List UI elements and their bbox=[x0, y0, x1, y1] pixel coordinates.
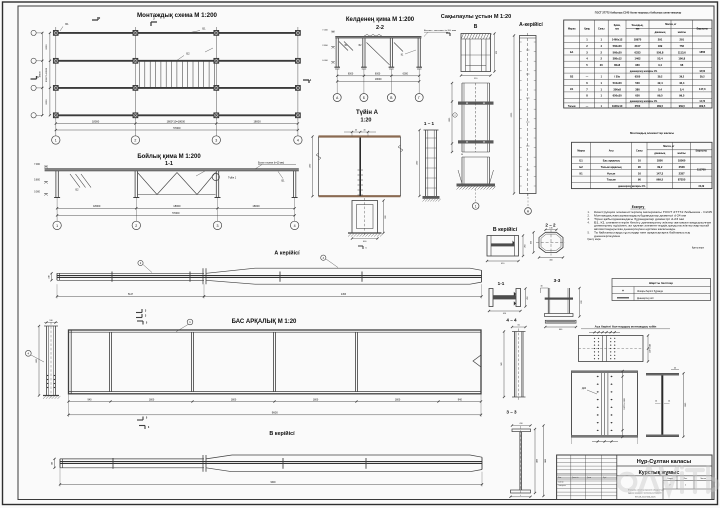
svg-text:Күнí: Күнí bbox=[603, 477, 607, 479]
svg-text:А-керíйісí: А-керíйісí bbox=[519, 21, 543, 28]
svg-text:1462: 1462 bbox=[635, 57, 641, 61]
svg-text:ГОСТ 27772 бойынша С245 болат: ГОСТ 27772 бойынша С245 болат маркасы бо… bbox=[595, 11, 682, 15]
svg-text:4.: 4. bbox=[588, 221, 590, 224]
svg-text:6000: 6000 bbox=[375, 73, 381, 76]
svg-text:КП-08-2107-БҚ-2021: КП-08-2107-БҚ-2021 bbox=[635, 495, 656, 498]
svg-text:5,4: 5,4 bbox=[658, 87, 662, 91]
svg-text:6000: 6000 bbox=[403, 73, 409, 76]
svg-text:147,3: 147,3 bbox=[656, 171, 663, 175]
svg-text:Барлығы: Барлығы bbox=[697, 27, 708, 30]
svg-text:111700: 111700 bbox=[697, 168, 706, 172]
svg-text:В керíйісí: В керíйісí bbox=[269, 430, 295, 437]
svg-text:1800*10=18000: 1800*10=18000 bbox=[167, 119, 186, 123]
svg-text:2: 2 bbox=[134, 139, 136, 143]
svg-text:3107: 3107 bbox=[635, 44, 641, 48]
svg-text:1856: 1856 bbox=[657, 159, 663, 163]
svg-text:0.000: 0.000 bbox=[322, 60, 328, 62]
svg-text:130: 130 bbox=[549, 227, 552, 229]
svg-text:18,56: 18,56 bbox=[699, 71, 705, 73]
svg-text:2: 2 bbox=[135, 224, 137, 228]
svg-text:18000: 18000 bbox=[375, 78, 382, 81]
svg-text:380х12: 380х12 bbox=[613, 57, 622, 61]
svg-text:39,2: 39,2 bbox=[700, 76, 705, 79]
svg-text:39,2: 39,2 bbox=[679, 76, 684, 79]
svg-text:Монтаждық схема М 1:200: Монтаждық схема М 1:200 bbox=[137, 12, 217, 19]
svg-text:Шартты белгілер: Шартты белгілер bbox=[649, 281, 673, 285]
svg-text:6000: 6000 bbox=[46, 44, 48, 50]
svg-text:57000: 57000 bbox=[172, 211, 180, 215]
svg-text:4 – 4: 4 – 4 bbox=[506, 318, 517, 323]
svg-text:1: 1 bbox=[56, 224, 58, 228]
svg-text:5147: 5147 bbox=[128, 294, 134, 296]
svg-text:Б1: Б1 bbox=[570, 50, 574, 54]
svg-text:20: 20 bbox=[600, 63, 603, 67]
svg-text:Тасым арқалық: Тасым арқалық bbox=[601, 165, 623, 169]
svg-text:42,4: 42,4 bbox=[679, 81, 685, 85]
svg-text:960: 960 bbox=[635, 63, 640, 67]
svg-text:Ұстын: Ұстын bbox=[607, 171, 616, 175]
svg-text:90: 90 bbox=[638, 165, 641, 169]
svg-text:300х8: 300х8 bbox=[613, 87, 621, 91]
svg-text:99,5: 99,5 bbox=[657, 94, 663, 98]
svg-text:969,5: 969,5 bbox=[656, 178, 663, 182]
svg-text:100*13=1300: 100*13=1300 bbox=[624, 398, 626, 409]
svg-text:Саны: Саны bbox=[636, 149, 643, 152]
svg-text:18000: 18000 bbox=[253, 119, 261, 123]
svg-text:556,8: 556,8 bbox=[657, 50, 664, 54]
svg-text:1800: 1800 bbox=[395, 398, 401, 401]
svg-text:650х30: 650х30 bbox=[613, 94, 622, 98]
svg-text:240: 240 bbox=[48, 275, 50, 278]
svg-text:Қанту мәре: Қанту мәре bbox=[692, 247, 705, 250]
svg-text:Марка: Марка bbox=[568, 27, 576, 30]
svg-text:10: 10 bbox=[638, 159, 641, 163]
svg-text:дананың: дананың bbox=[654, 152, 665, 155]
svg-text:410: 410 bbox=[519, 423, 522, 425]
svg-text:Масса, кг: Масса, кг bbox=[663, 145, 674, 148]
svg-text:530: 530 bbox=[635, 81, 640, 85]
svg-text:К1: К1 bbox=[570, 87, 574, 91]
svg-text:87255: 87255 bbox=[678, 178, 686, 182]
svg-text:Бас арқалық: Бас арқалық bbox=[603, 159, 621, 163]
svg-text:жалпы: жалпы bbox=[676, 152, 685, 155]
svg-text:7.000: 7.000 bbox=[322, 29, 328, 31]
svg-text:40: 40 bbox=[674, 367, 676, 369]
svg-text:560х20: 560х20 bbox=[613, 50, 622, 54]
svg-text:дәнекерлеу жоғарғы 1%: дәнекерлеу жоғарғы 1% bbox=[630, 101, 657, 103]
svg-text:Марка: Марка bbox=[577, 149, 585, 152]
svg-text:6550: 6550 bbox=[635, 76, 641, 79]
svg-text:18000: 18000 bbox=[92, 119, 100, 123]
svg-text:189: 189 bbox=[658, 44, 663, 48]
svg-text:2-2: 2-2 bbox=[376, 25, 384, 31]
svg-text:Қанту мәре: Қанту мәре bbox=[588, 238, 602, 241]
svg-text:1-1: 1-1 bbox=[498, 281, 505, 286]
svg-text:Келденең қима М 1:200: Келденең қима М 1:200 bbox=[346, 17, 415, 23]
svg-text:Ескерту: Ескерту bbox=[632, 205, 645, 209]
svg-text:90: 90 bbox=[638, 178, 641, 182]
svg-text:Масса, кг: Масса, кг bbox=[665, 23, 676, 26]
svg-text:3528: 3528 bbox=[679, 165, 685, 169]
svg-text:4453: 4453 bbox=[341, 294, 347, 296]
svg-text:68: 68 bbox=[680, 63, 683, 67]
svg-text:30: 30 bbox=[461, 154, 463, 156]
svg-text:Тасым: Тасым bbox=[568, 106, 576, 108]
svg-text:Листов: Листов bbox=[700, 478, 706, 480]
svg-text:969,5: 969,5 bbox=[699, 105, 706, 108]
svg-text:мм: мм bbox=[636, 27, 640, 30]
svg-text:1 – 1: 1 – 1 bbox=[424, 121, 435, 126]
svg-text:Жоғары берíктí бұранда: Жоғары берíктí бұранда bbox=[637, 291, 664, 293]
svg-text:291: 291 bbox=[658, 38, 663, 42]
svg-text:1-1: 1-1 bbox=[165, 161, 173, 167]
svg-text:Дәнекерлеу жігí: Дәнекерлеу жігí bbox=[637, 297, 654, 300]
svg-text:1: 1 bbox=[55, 139, 57, 143]
svg-text:К1: К1 bbox=[580, 171, 584, 175]
svg-text:510х20: 510х20 bbox=[613, 81, 622, 85]
svg-text:57000: 57000 bbox=[173, 126, 181, 130]
svg-text:5,4: 5,4 bbox=[680, 87, 684, 91]
svg-text:Монтаждық элементтер жасағы: Монтаждық элементтер жасағы bbox=[630, 131, 675, 135]
svg-text:53,4: 53,4 bbox=[657, 57, 663, 61]
svg-text:1856: 1856 bbox=[699, 50, 705, 54]
svg-text:1113,6: 1113,6 bbox=[678, 50, 686, 54]
svg-text:жалпы: жалпы bbox=[677, 31, 686, 34]
svg-text:3: 3 bbox=[215, 139, 217, 143]
svg-text:Аты: Аты bbox=[609, 149, 614, 152]
svg-text:6333: 6333 bbox=[635, 50, 641, 54]
svg-text:Түйін 1: Түйін 1 bbox=[228, 177, 237, 180]
svg-text:2357: 2357 bbox=[679, 171, 685, 175]
svg-text:60: 60 bbox=[518, 324, 520, 326]
svg-text:147,3: 147,3 bbox=[699, 87, 706, 91]
svg-text:3-3: 3-3 bbox=[554, 278, 561, 283]
svg-text:6550: 6550 bbox=[635, 105, 641, 108]
svg-text:6000: 6000 bbox=[348, 73, 354, 76]
svg-text:33,29: 33,29 bbox=[698, 186, 704, 188]
svg-text:Б1: Б1 bbox=[65, 22, 69, 26]
svg-text:120*2=240: 120*2=240 bbox=[649, 344, 651, 353]
svg-text:650: 650 bbox=[635, 94, 640, 98]
svg-text:1460х12: 1460х12 bbox=[612, 38, 623, 42]
svg-text:39,2: 39,2 bbox=[657, 165, 663, 169]
svg-text:I 30а: I 30а bbox=[614, 76, 620, 79]
svg-text:Нұр-Сұлтан каласы: Нұр-Сұлтан каласы bbox=[637, 459, 692, 465]
svg-text:Болат төсеме t=10 мм: Болат төсеме t=10 мм bbox=[424, 29, 457, 32]
svg-text:1400: 1400 bbox=[536, 459, 538, 463]
svg-text:560х20: 560х20 bbox=[613, 44, 622, 48]
svg-text:БАС АРҚАЛЫҚ М 1:20: БАС АРҚАЛЫҚ М 1:20 bbox=[232, 319, 297, 325]
svg-text:940: 940 bbox=[458, 398, 463, 401]
svg-text:Барлығы: Барлығы bbox=[696, 149, 707, 152]
svg-text:1800: 1800 bbox=[149, 398, 155, 401]
svg-text:969,5: 969,5 bbox=[657, 105, 664, 108]
svg-text:Бойлық қима М 1:200: Бойлық қима М 1:200 bbox=[137, 153, 201, 160]
svg-text:дәнекерлеу жоғарғы 1%: дәнекерлеу жоғарғы 1% bbox=[618, 186, 645, 188]
svg-text:Лист: Лист bbox=[684, 478, 688, 480]
svg-text:3 – 3: 3 – 3 bbox=[506, 410, 517, 415]
svg-text:дәнекерлеу жоғарғы 1%: дәнекерлеу жоғарғы 1% bbox=[630, 71, 657, 73]
svg-text:969,5: 969,5 bbox=[679, 105, 686, 108]
svg-text:6000*2=18000: 6000*2=18000 bbox=[46, 67, 48, 82]
svg-text:дананың: дананың bbox=[655, 31, 666, 34]
svg-text:240: 240 bbox=[51, 462, 53, 465]
svg-text:5.800: 5.800 bbox=[34, 180, 40, 182]
svg-text:756: 756 bbox=[680, 44, 685, 48]
svg-text:4: 4 bbox=[294, 224, 296, 228]
svg-text:Г: Г bbox=[418, 96, 420, 100]
svg-text:+: + bbox=[622, 289, 624, 293]
svg-text:14,73: 14,73 bbox=[699, 100, 705, 103]
svg-text:3: 3 bbox=[217, 224, 219, 228]
svg-text:1800: 1800 bbox=[313, 398, 319, 401]
svg-text:18560: 18560 bbox=[678, 159, 686, 163]
svg-text:В керíйісí: В керíйісí bbox=[493, 226, 518, 233]
svg-text:Сызған: Сызған bbox=[558, 482, 564, 484]
svg-text:1900х10: 1900х10 bbox=[612, 104, 623, 108]
svg-text:18000: 18000 bbox=[173, 204, 181, 208]
svg-text:5.: 5. bbox=[588, 231, 590, 234]
svg-text:Қағаз №: Қағаз № bbox=[572, 476, 579, 479]
svg-text:18000: 18000 bbox=[93, 204, 101, 208]
svg-text:Аса берíктí болттардың монтажд: Аса берíктí болттардың монтаждық түйíн bbox=[595, 325, 657, 329]
svg-text:18000: 18000 bbox=[252, 204, 260, 208]
svg-text:1: 1 bbox=[475, 204, 477, 208]
svg-text:291: 291 bbox=[680, 38, 685, 42]
svg-text:80х8: 80х8 bbox=[614, 63, 620, 67]
svg-text:7.000: 7.000 bbox=[34, 164, 40, 166]
svg-text:Б1: Б1 bbox=[579, 159, 583, 163]
svg-text:Б1: Б1 bbox=[202, 27, 206, 31]
svg-text:2.800: 2.800 bbox=[322, 45, 328, 47]
svg-text:1:20: 1:20 bbox=[360, 118, 371, 124]
svg-text:9600: 9600 bbox=[272, 411, 278, 415]
svg-text:18000: 18000 bbox=[40, 71, 42, 78]
svg-text:В: В bbox=[474, 24, 478, 30]
svg-text:Қаңқ: Қаңқ bbox=[584, 27, 590, 30]
svg-text:42,4: 42,4 bbox=[657, 81, 663, 85]
svg-text:Б2: Б2 bbox=[186, 52, 190, 56]
svg-text:3,4: 3,4 bbox=[658, 63, 662, 67]
svg-text:0.000: 0.000 bbox=[34, 192, 40, 194]
svg-text:18975: 18975 bbox=[634, 38, 642, 42]
svg-text:Саны: Саны bbox=[598, 27, 605, 30]
svg-text:1460: 1460 bbox=[545, 459, 547, 463]
svg-text:мм: мм bbox=[615, 27, 619, 30]
svg-text:Д24: Д24 bbox=[582, 387, 587, 390]
svg-text:940: 940 bbox=[88, 398, 93, 401]
svg-text:99,5: 99,5 bbox=[679, 94, 685, 98]
svg-text:6000: 6000 bbox=[46, 99, 48, 105]
svg-text:4: 4 bbox=[297, 139, 299, 143]
svg-text:39,2: 39,2 bbox=[658, 76, 663, 79]
svg-text:Сақылаулы ұстын М 1:20: Сақылаулы ұстын М 1:20 bbox=[441, 14, 511, 20]
svg-text:380: 380 bbox=[635, 87, 640, 91]
svg-text:9600: 9600 bbox=[270, 482, 276, 484]
svg-text:Б2: Б2 bbox=[579, 165, 583, 169]
svg-text:Болат төсеме (t=10 мм): Болат төсеме (t=10 мм) bbox=[258, 162, 284, 165]
svg-text:106,8: 106,8 bbox=[678, 57, 685, 61]
svg-text:30: 30 bbox=[540, 286, 542, 288]
svg-text:А керíйісí: А керíйісí bbox=[274, 250, 300, 257]
svg-text:Түйін А: Түйін А bbox=[356, 109, 379, 116]
svg-text:1800: 1800 bbox=[231, 398, 237, 401]
svg-text:Тексерген: Тексерген bbox=[558, 485, 566, 487]
svg-text:Тасым: Тасым bbox=[607, 178, 616, 182]
svg-text:Б: Б bbox=[363, 96, 365, 100]
svg-text:16: 16 bbox=[638, 171, 641, 175]
